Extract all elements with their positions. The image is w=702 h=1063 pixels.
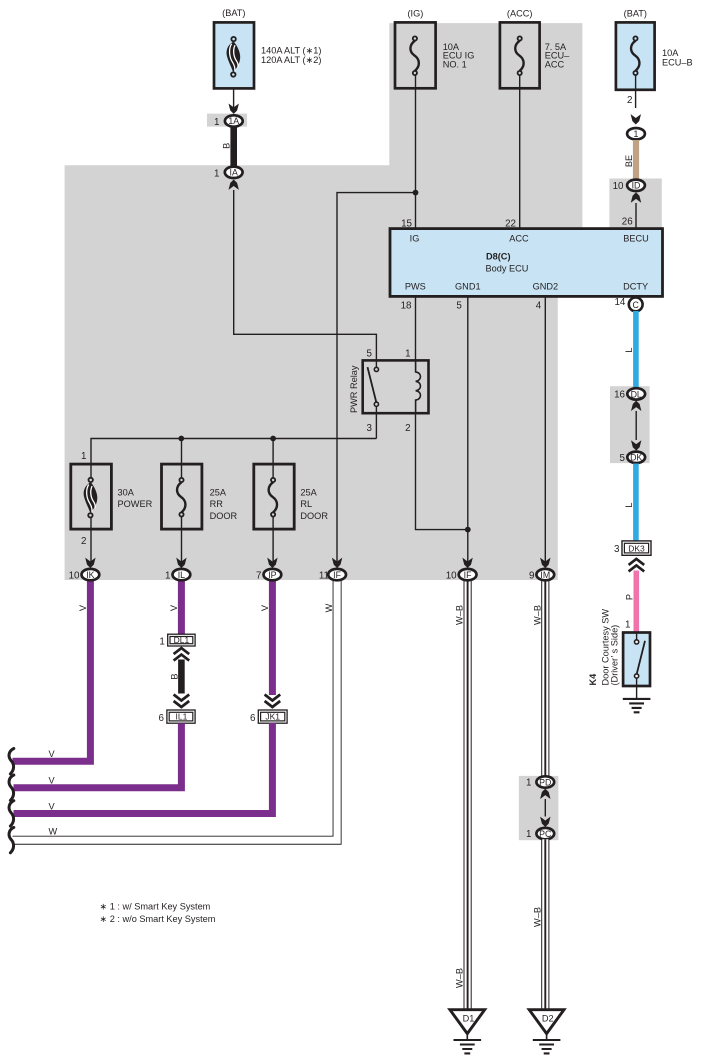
fuse (IG) 10A ECU IG NO.1 xyxy=(395,9,474,89)
svg-text:2: 2 xyxy=(81,536,86,547)
svg-text:∗ 2 : w/o Smart Key System: ∗ 2 : w/o Smart Key System xyxy=(100,914,216,924)
wire relay coil pin 2 to GND1 junction xyxy=(416,413,468,529)
grey shade behind connectors PD/PC xyxy=(519,776,559,840)
svg-text:PC: PC xyxy=(539,829,552,839)
svg-text:B: B xyxy=(221,143,231,149)
wire IA to PWR relay pin 5 xyxy=(234,190,377,360)
svg-text:PWR Relay: PWR Relay xyxy=(349,365,359,413)
break squiggle V2 xyxy=(9,775,14,800)
arrow into connector 1A xyxy=(229,104,239,114)
svg-text:(BAT): (BAT) xyxy=(624,9,647,19)
svg-text:ECU–B: ECU–B xyxy=(662,58,693,68)
fuse 25A RL DOOR xyxy=(254,464,329,529)
arrow chevrons into JK1 xyxy=(265,695,281,708)
wire W (white) IF down-left to harness xyxy=(13,580,338,840)
arrow into DK xyxy=(631,440,641,450)
svg-text:1: 1 xyxy=(81,451,86,462)
wire ECU GND1 pin 5 to connector IF xyxy=(467,297,469,563)
wire ECU GND2 pin 4 to connector IM xyxy=(544,297,546,563)
svg-text:1: 1 xyxy=(165,570,170,581)
connector IP pin 7 xyxy=(256,569,281,582)
svg-text:L: L xyxy=(624,502,634,507)
connector IF pin 10 xyxy=(446,569,477,582)
ground symbol K4 xyxy=(623,699,651,712)
svg-text:PD: PD xyxy=(539,777,551,787)
svg-text:1: 1 xyxy=(634,129,639,139)
connector C pin 14 ECU DCTY xyxy=(629,298,643,312)
note smart key system xyxy=(100,901,216,924)
arrow into connector IK xyxy=(85,558,95,568)
svg-text:V: V xyxy=(169,604,179,611)
wire W-B IM to PD xyxy=(541,580,549,782)
connector DK pin 5 xyxy=(620,452,646,464)
svg-text:10A: 10A xyxy=(662,48,679,58)
arrow chevrons into DK3 xyxy=(629,559,645,572)
connector PC pin 1 xyxy=(526,828,554,840)
svg-text:D2: D2 xyxy=(542,1014,554,1024)
ground point D2 xyxy=(529,1010,564,1054)
arrow out of connector IA xyxy=(229,180,239,190)
connector IK pin 10 xyxy=(69,569,100,582)
connector IA pin 1 xyxy=(214,167,243,180)
svg-text:2: 2 xyxy=(405,423,410,434)
svg-text:IK: IK xyxy=(86,570,94,580)
svg-text:P: P xyxy=(624,594,634,600)
svg-text:D8(C): D8(C) xyxy=(486,252,511,262)
svg-text:IF: IF xyxy=(333,570,341,580)
svg-text:W–B: W–B xyxy=(455,605,465,625)
svg-text:1: 1 xyxy=(214,117,219,128)
body ECU D8(C) xyxy=(390,229,663,297)
svg-text:1: 1 xyxy=(405,348,410,359)
connector JK1 pin 6 xyxy=(250,710,287,724)
svg-text:B: B xyxy=(169,673,179,679)
grey harness shade main region xyxy=(65,23,583,580)
svg-text:IM: IM xyxy=(540,570,550,580)
svg-text:GND2: GND2 xyxy=(533,282,559,292)
grey shade behind connector 1A xyxy=(207,114,247,127)
svg-text:120A ALT (∗2): 120A ALT (∗2) xyxy=(261,55,321,65)
arrow into connector IF pin 10 xyxy=(462,558,472,568)
svg-text:5: 5 xyxy=(456,300,462,311)
svg-text:26: 26 xyxy=(622,216,633,227)
wire relay pin 3 to fuse bus xyxy=(375,413,377,438)
svg-text:ID: ID xyxy=(632,181,641,191)
connector ID pin 10 xyxy=(613,180,645,192)
svg-text:IF: IF xyxy=(464,570,472,580)
arrow out of connector ID xyxy=(631,192,641,202)
break squiggle V3 xyxy=(9,801,14,826)
svg-text:6: 6 xyxy=(159,713,165,724)
wire V (violet) IK down-left to harness xyxy=(13,580,91,761)
connector PD pin 1 xyxy=(526,776,554,788)
svg-text:4: 4 xyxy=(536,300,542,311)
svg-text:RL: RL xyxy=(300,499,312,509)
svg-text:DL: DL xyxy=(631,389,642,399)
svg-text:V: V xyxy=(260,604,270,611)
svg-text:10: 10 xyxy=(69,570,80,581)
wire fuse bus xyxy=(91,439,376,465)
svg-text:14: 14 xyxy=(614,297,625,308)
fuse 30A POWER xyxy=(71,451,153,547)
wire ACC fuse to ECU pin 22 xyxy=(519,75,521,228)
svg-text:IL1: IL1 xyxy=(175,712,187,722)
svg-text:1: 1 xyxy=(526,829,531,840)
svg-text:V: V xyxy=(49,749,56,759)
svg-text:1: 1 xyxy=(159,636,164,647)
svg-text:IG: IG xyxy=(410,234,420,244)
svg-text:W–B: W–B xyxy=(455,968,465,988)
svg-text:10: 10 xyxy=(446,570,457,581)
svg-text:DOOR: DOOR xyxy=(210,511,238,521)
wire V (violet) IL to DL1 xyxy=(178,580,185,634)
svg-text:3: 3 xyxy=(367,423,373,434)
svg-text:6: 6 xyxy=(250,713,256,724)
wire fuse 30A to connector IK xyxy=(90,517,92,562)
wire P (pink) DK3 to door courtesy switch xyxy=(633,571,639,634)
svg-text:POWER: POWER xyxy=(118,499,153,509)
connector DK3 pin 3 xyxy=(614,541,651,555)
wire ID to ECU pin 26 BECU xyxy=(635,203,637,229)
node junction on IG wire xyxy=(413,190,419,196)
svg-text:RR: RR xyxy=(210,499,224,509)
svg-text:GND1: GND1 xyxy=(455,282,481,292)
arrow into connector IL xyxy=(176,558,186,568)
wire fuse RL DOOR to connector IP xyxy=(272,517,274,562)
arrow into PC xyxy=(540,817,550,827)
wire B (thick black) 1A to IA xyxy=(230,128,237,167)
arrow into connector IM xyxy=(540,558,550,568)
svg-text:W: W xyxy=(49,827,58,837)
svg-text:W: W xyxy=(324,603,334,612)
svg-text:Body ECU: Body ECU xyxy=(486,263,529,273)
svg-text:DK: DK xyxy=(630,453,642,463)
node junction bus RR DOOR xyxy=(178,436,184,478)
node junction bus RL DOOR xyxy=(270,436,276,478)
svg-text:5: 5 xyxy=(620,453,626,464)
wire L (blue) C to DL xyxy=(633,311,639,388)
break squiggle V1 xyxy=(9,749,14,774)
wire K4 to ground xyxy=(636,686,638,699)
svg-text:3: 3 xyxy=(614,544,620,555)
fuse (BAT) 10A ECU-B xyxy=(616,9,693,90)
connector DL1 pin 1 xyxy=(159,634,195,647)
node junction GND1 xyxy=(465,527,471,533)
arrow out of DL xyxy=(631,401,641,411)
svg-text:C: C xyxy=(633,300,640,310)
fuse (ACC) 7.5A ECU-ACC xyxy=(500,9,570,89)
wire link PD to PC xyxy=(544,799,546,817)
svg-text:JK1: JK1 xyxy=(265,712,280,722)
relay PWR Relay xyxy=(349,348,429,433)
svg-text:1: 1 xyxy=(625,619,630,630)
svg-text:1: 1 xyxy=(526,778,531,789)
wire B (thick black) DL1 to IL1 xyxy=(178,660,185,694)
connector IL1 pin 6 xyxy=(159,710,196,724)
arrow out of PD xyxy=(540,789,550,799)
wire fuse RR DOOR to connector IL xyxy=(181,517,183,562)
connector 1A pin 1 xyxy=(214,115,243,128)
arrow into connector IP xyxy=(267,558,277,568)
wire V (violet) JK1 down-left to harness xyxy=(14,723,273,814)
switch K4 Door Courtesy SW (Driver's Side) xyxy=(588,609,650,686)
wire BAT fuse to connector 1 xyxy=(635,75,637,108)
svg-text:V: V xyxy=(49,801,56,811)
svg-text:25A: 25A xyxy=(210,488,227,498)
wire junction to connector IF pin 11 xyxy=(337,193,416,562)
svg-text:30A: 30A xyxy=(118,488,135,498)
svg-text:(IG): (IG) xyxy=(407,9,423,19)
connector 1 xyxy=(627,128,645,139)
wire IG fuse to ECU pin 15 xyxy=(415,75,417,228)
svg-text:W–B: W–B xyxy=(532,907,542,927)
svg-text:9: 9 xyxy=(529,570,534,581)
svg-text:(BAT): (BAT) xyxy=(222,8,245,18)
svg-text:IL: IL xyxy=(178,570,185,580)
svg-text:ACC: ACC xyxy=(545,59,565,69)
svg-text:D1: D1 xyxy=(463,1014,475,1024)
connector DL pin 16 xyxy=(614,388,645,400)
svg-text:IA: IA xyxy=(230,168,238,178)
wire W-B PC to ground D2 xyxy=(541,839,549,1010)
svg-text:DOOR: DOOR xyxy=(300,511,328,521)
svg-text:V: V xyxy=(49,776,56,786)
svg-text:ACC: ACC xyxy=(509,234,529,244)
svg-text:DK3: DK3 xyxy=(628,543,645,553)
ground point D1 xyxy=(450,1010,485,1054)
grey shade behind connectors DL/DK xyxy=(610,386,650,463)
svg-text:(ACC): (ACC) xyxy=(507,9,533,19)
svg-text:5: 5 xyxy=(367,348,373,359)
fusible link (BAT) 140A/120A ALT xyxy=(214,8,321,88)
svg-text:DCTY: DCTY xyxy=(623,282,648,292)
svg-text:1: 1 xyxy=(214,168,219,179)
svg-text:W–B: W–B xyxy=(532,605,542,625)
svg-text:25A: 25A xyxy=(300,488,317,498)
wire L (blue) DK to DK3 xyxy=(633,464,639,542)
fuse 25A RR DOOR xyxy=(162,464,238,529)
arrow chevrons out of DL1 xyxy=(174,648,190,661)
wire BE (beige) 1 to ID xyxy=(633,140,639,179)
svg-text:K4: K4 xyxy=(588,673,598,686)
svg-text:16: 16 xyxy=(614,390,625,401)
svg-text:IP: IP xyxy=(268,570,276,580)
wire V (violet) IP to JK1 xyxy=(269,580,276,695)
wire ECU PWS pin 18 to relay coil pin 1 xyxy=(415,297,417,361)
connector IM pin 9 xyxy=(529,569,554,582)
wire V (violet) IL1 down-left to harness xyxy=(14,723,182,788)
break squiggle W xyxy=(9,827,14,852)
arrow into connector 1 xyxy=(631,114,641,124)
svg-text:2: 2 xyxy=(627,95,632,106)
svg-text:BECU: BECU xyxy=(623,234,649,244)
svg-text:V: V xyxy=(78,604,88,611)
svg-text:NO. 1: NO. 1 xyxy=(443,59,467,69)
wire W-B IF to ground D1 xyxy=(464,580,472,1011)
connector IF pin 11 xyxy=(319,569,346,582)
svg-text:7: 7 xyxy=(256,570,261,581)
svg-text:DL1: DL1 xyxy=(174,635,190,645)
grey shade behind connector ID xyxy=(609,179,661,229)
svg-text:18: 18 xyxy=(401,300,412,311)
arrow into connector IF pin 11 xyxy=(332,558,342,568)
svg-text:10: 10 xyxy=(613,181,624,192)
wire from fusible link (BAT) to connector 1A xyxy=(233,77,235,108)
svg-text:L: L xyxy=(624,347,634,352)
arrow chevrons into IL1 xyxy=(174,695,190,708)
svg-text:BE: BE xyxy=(624,155,634,167)
svg-text:(Driver’ s Side): (Driver’ s Side) xyxy=(610,625,620,686)
svg-text:PWS: PWS xyxy=(405,282,426,292)
wire link DL to DK xyxy=(635,411,637,440)
connector IL pin 1 xyxy=(165,569,190,582)
svg-text:∗ 1 : w/ Smart Key System: ∗ 1 : w/ Smart Key System xyxy=(100,901,211,911)
svg-text:1A: 1A xyxy=(228,116,239,126)
